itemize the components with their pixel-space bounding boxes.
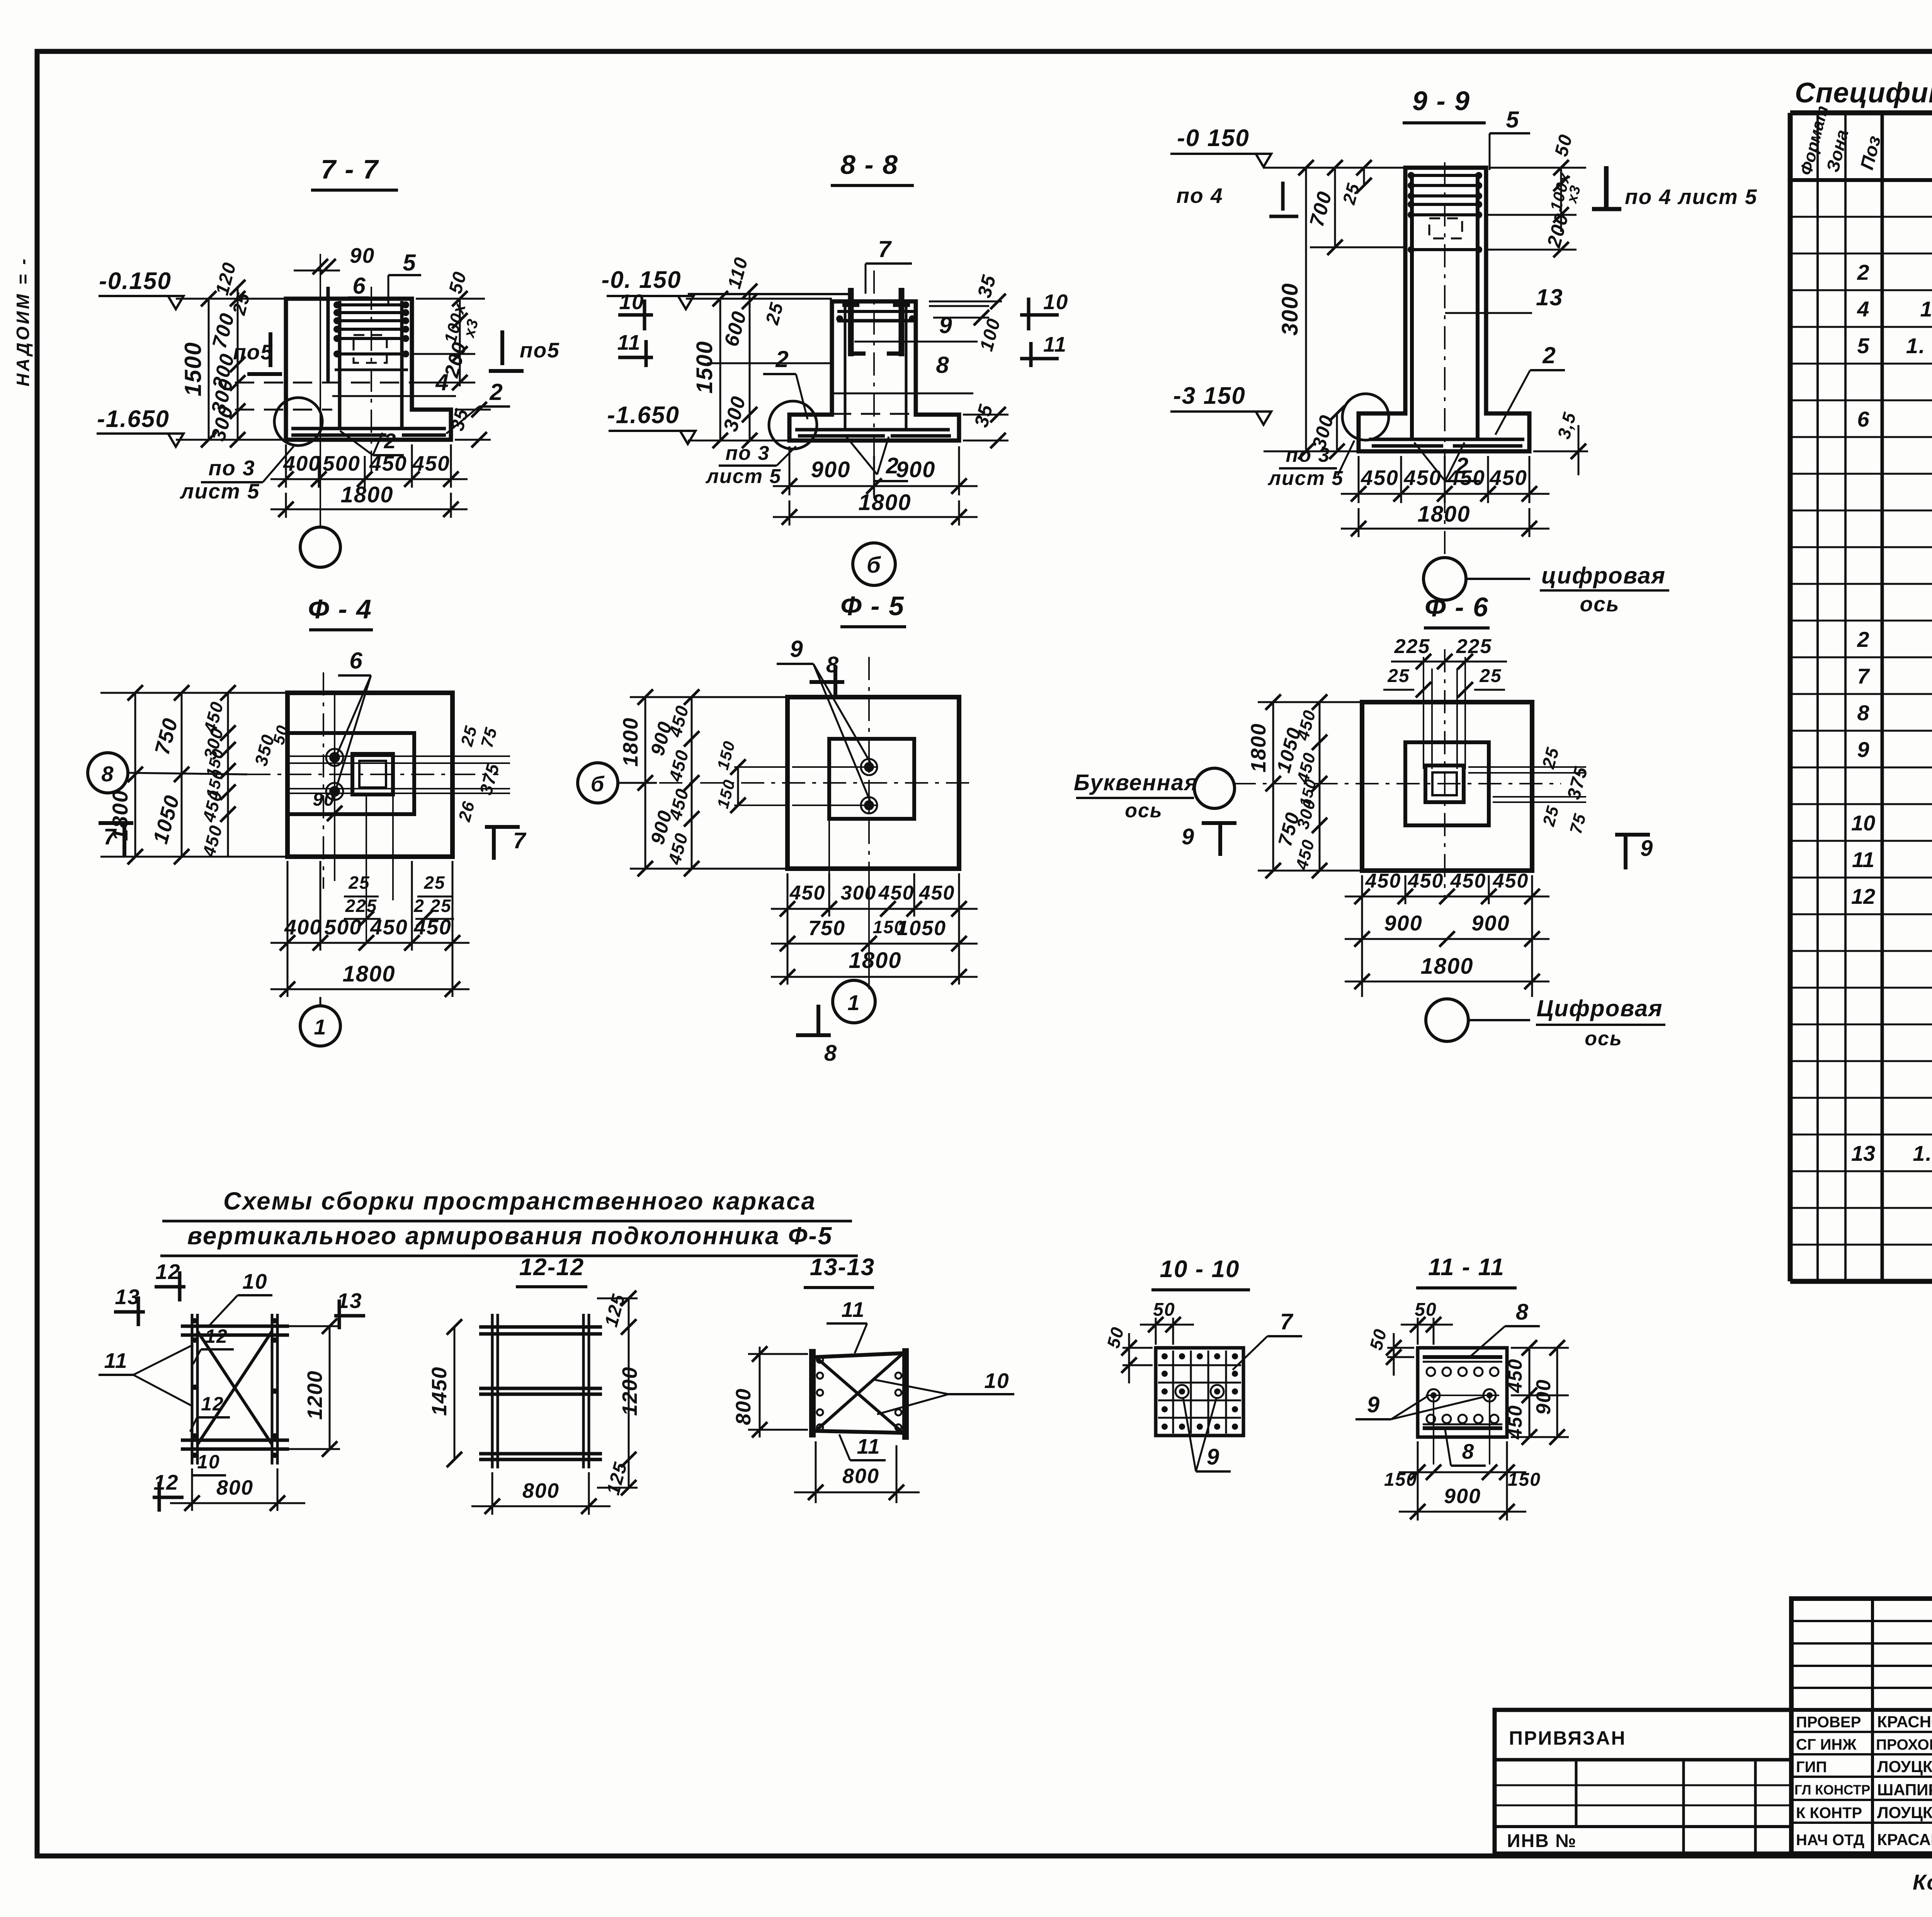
svg-text:9: 9 bbox=[939, 312, 952, 338]
7-7 left dim chain stack bbox=[237, 287, 239, 440]
svg-text:750: 750 bbox=[808, 917, 845, 940]
svg-text:5: 5 bbox=[1506, 107, 1519, 133]
svg-text:450: 450 bbox=[370, 915, 408, 939]
svg-text:25: 25 bbox=[423, 873, 445, 893]
svg-text:9: 9 bbox=[790, 636, 803, 662]
svg-text:8 - 8: 8 - 8 bbox=[840, 150, 898, 180]
svg-text:12-12: 12-12 bbox=[519, 1254, 585, 1281]
svg-text:12: 12 bbox=[205, 1325, 228, 1347]
8-8 dashed line bbox=[832, 413, 916, 415]
svg-text:13: 13 bbox=[1536, 284, 1563, 310]
svg-text:8: 8 bbox=[1516, 1300, 1529, 1325]
title block bbox=[1791, 1599, 1932, 1854]
svg-text:900: 900 bbox=[1384, 911, 1422, 935]
svg-text:1800: 1800 bbox=[1247, 723, 1270, 772]
F-4 column plates bbox=[352, 754, 393, 794]
9-9 bottom dim chain 450x4 bbox=[1358, 456, 1360, 503]
F-6 axis circle bbox=[1426, 999, 1468, 1041]
F-6 bottom dim chain bbox=[1361, 875, 1363, 997]
svg-text:лист 5: лист 5 bbox=[179, 479, 260, 503]
svg-text:10 - 10: 10 - 10 bbox=[1160, 1256, 1240, 1283]
scheme 13-13 left plate bbox=[809, 1349, 816, 1437]
svg-text:КРАСАВИН: КРАСАВИН bbox=[1877, 1830, 1932, 1849]
svg-text:Копировал Антипова: Копировал Антипова bbox=[1913, 1870, 1932, 1894]
svg-text:1800: 1800 bbox=[619, 717, 642, 767]
svg-text:225: 225 bbox=[1456, 635, 1492, 658]
svg-text:1200: 1200 bbox=[618, 1366, 641, 1416]
svg-text:-0.150: -0.150 bbox=[99, 268, 172, 294]
svg-text:450: 450 bbox=[878, 882, 915, 904]
svg-text:25: 25 bbox=[1387, 666, 1410, 686]
7-7 centerline bbox=[371, 287, 372, 479]
svg-text:Ф - 5: Ф - 5 bbox=[840, 591, 905, 621]
svg-text:1.412 - 1/77- В 3 100: 1.412 - 1/77- В 3 100 bbox=[1920, 297, 1932, 321]
svg-text:ГЛ КОНСТР: ГЛ КОНСТР bbox=[1794, 1783, 1870, 1798]
11-11 bottom dims 150 150 900 bbox=[1417, 1441, 1419, 1521]
svg-text:ось: ось bbox=[1585, 1027, 1622, 1050]
section 9-9 concrete outline bbox=[1359, 168, 1529, 451]
svg-text:6: 6 bbox=[1857, 407, 1869, 431]
F-5 anchor bolts bbox=[864, 762, 874, 772]
svg-text:б: б bbox=[867, 553, 881, 578]
F-4 bottom dim chain bbox=[287, 861, 289, 997]
F-5 axis circle 1 bbox=[833, 980, 875, 1023]
svg-text:по5: по5 bbox=[233, 340, 273, 364]
svg-text:8: 8 bbox=[101, 762, 114, 786]
svg-text:-1.650: -1.650 bbox=[97, 406, 170, 432]
svg-text:1800: 1800 bbox=[342, 961, 395, 987]
svg-text:450: 450 bbox=[789, 882, 826, 904]
7-7 dim 1800 bbox=[285, 493, 287, 518]
small attachment table bbox=[1495, 1710, 1791, 1854]
11-11 top bolt circles bbox=[1427, 1368, 1435, 1376]
7-7 axis circle bbox=[300, 527, 340, 567]
svg-text:7: 7 bbox=[1857, 664, 1870, 688]
F-6 bolt verticals from top bbox=[1423, 657, 1424, 769]
svg-text:ось: ось bbox=[1580, 592, 1620, 616]
svg-text:Буквенная: Буквенная bbox=[1074, 770, 1198, 795]
8-8 axis circle b bbox=[853, 543, 895, 585]
svg-text:10: 10 bbox=[197, 1451, 220, 1473]
9-9 vertical rebar poz13 bbox=[1410, 173, 1414, 441]
svg-text:7: 7 bbox=[1280, 1309, 1294, 1334]
9-9 dim 3000 bbox=[1305, 168, 1307, 451]
F-5 bottom dim chain bbox=[787, 873, 789, 985]
svg-text:КРАСНОВА: КРАСНОВА bbox=[1877, 1713, 1932, 1731]
svg-text:ПРОХОРОВА: ПРОХОРОВА bbox=[1876, 1737, 1932, 1753]
svg-text:11: 11 bbox=[1043, 332, 1067, 356]
8-8 detail circle bbox=[769, 401, 817, 449]
svg-text:450: 450 bbox=[919, 882, 955, 904]
svg-text:по 4: по 4 bbox=[1176, 184, 1223, 208]
svg-text:2: 2 bbox=[1857, 627, 1869, 651]
svg-text:500: 500 bbox=[324, 915, 362, 939]
svg-text:1: 1 bbox=[847, 990, 860, 1015]
svg-text:1500: 1500 bbox=[180, 342, 206, 396]
svg-text:1800: 1800 bbox=[340, 482, 393, 507]
svg-text:НАЧ ОТД: НАЧ ОТД bbox=[1796, 1832, 1864, 1849]
svg-text:11 - 11: 11 - 11 bbox=[1428, 1254, 1505, 1281]
8-8 anchor bolts poz7 bbox=[848, 288, 854, 356]
F-5 left dims bbox=[645, 697, 646, 869]
svg-text:450: 450 bbox=[1450, 870, 1486, 892]
svg-text:Ф - 6: Ф - 6 bbox=[1425, 592, 1489, 622]
7-7 stirrup ties poz5 bbox=[335, 303, 408, 306]
svg-text:7: 7 bbox=[513, 828, 527, 853]
11-11 right dims 450 450 900 bbox=[1511, 1347, 1569, 1349]
svg-text:25: 25 bbox=[348, 873, 370, 893]
svg-text:по 4 лист 5: по 4 лист 5 bbox=[1625, 185, 1758, 209]
svg-text:ЛОУЦКЕР: ЛОУЦКЕР bbox=[1877, 1803, 1932, 1822]
svg-text:50: 50 bbox=[1153, 1300, 1175, 1320]
svg-text:1050: 1050 bbox=[897, 917, 946, 940]
svg-text:450: 450 bbox=[1361, 466, 1399, 490]
svg-text:5: 5 bbox=[403, 250, 416, 276]
svg-text:2 25: 2 25 bbox=[413, 896, 452, 916]
svg-text:1800: 1800 bbox=[849, 948, 901, 973]
svg-text:ШАПИРО: ШАПИРО bbox=[1877, 1781, 1932, 1799]
svg-text:450: 450 bbox=[1504, 1358, 1526, 1393]
svg-text:1800: 1800 bbox=[1417, 502, 1470, 527]
svg-text:900: 900 bbox=[811, 457, 851, 482]
svg-text:СГ ИНЖ: СГ ИНЖ bbox=[1796, 1736, 1857, 1753]
svg-text:8: 8 bbox=[936, 352, 949, 378]
section 7-7 concrete outline bbox=[286, 299, 451, 440]
svg-text:по 3: по 3 bbox=[208, 456, 255, 480]
svg-text:450: 450 bbox=[1408, 870, 1444, 892]
F-4 right dims bbox=[456, 755, 510, 757]
7-7 anchor bolt poz6 bbox=[327, 287, 330, 383]
svg-text:11: 11 bbox=[617, 330, 641, 354]
svg-text:10: 10 bbox=[619, 290, 644, 314]
svg-text:800: 800 bbox=[522, 1479, 560, 1502]
10-10 grid bbox=[1172, 1351, 1174, 1434]
9-9 detail circle bbox=[1342, 394, 1389, 440]
F-5 thin lines bbox=[792, 766, 877, 768]
F-4 anchor bolts bbox=[329, 752, 340, 763]
7-7 left dim chain 1500 bbox=[208, 299, 210, 440]
10-10 rebar dots bbox=[1162, 1353, 1168, 1359]
scheme 13-13 label 10 leaders right bbox=[873, 1379, 949, 1394]
svg-text:лист 5: лист 5 bbox=[705, 465, 782, 488]
svg-text:Схемы сборки пространственно: Схемы сборки пространственного каркаса bbox=[223, 1187, 816, 1215]
svg-text:900: 900 bbox=[1532, 1379, 1555, 1415]
svg-text:ПРОВЕР: ПРОВЕР bbox=[1796, 1714, 1861, 1731]
svg-text:8: 8 bbox=[1462, 1439, 1475, 1463]
svg-text:450: 450 bbox=[1403, 466, 1442, 490]
scheme 13-13 dim 800 left bbox=[748, 1353, 808, 1355]
svg-text:4: 4 bbox=[1857, 297, 1869, 321]
svg-text:6: 6 bbox=[352, 273, 366, 299]
svg-text:лист 5: лист 5 bbox=[1267, 467, 1344, 490]
svg-text:1800: 1800 bbox=[1420, 954, 1473, 979]
7-7 column dashed outline bbox=[354, 335, 387, 363]
F-4 thin grid lines bbox=[287, 755, 502, 757]
svg-text:90: 90 bbox=[350, 243, 375, 267]
svg-text:1200: 1200 bbox=[303, 1370, 327, 1420]
svg-text:6: 6 bbox=[349, 648, 363, 674]
svg-text:10: 10 bbox=[242, 1269, 267, 1293]
scheme A X-braced frame bbox=[191, 1314, 194, 1465]
svg-text:900: 900 bbox=[1471, 911, 1510, 935]
section 8-8 concrete outline bbox=[789, 301, 959, 441]
svg-text:500: 500 bbox=[323, 451, 361, 475]
8-8 top step bbox=[688, 293, 851, 295]
svg-text:11: 11 bbox=[104, 1349, 128, 1373]
svg-text:Ф - 4: Ф - 4 bbox=[308, 594, 372, 624]
scheme 12-12 ladder frame bbox=[491, 1314, 494, 1468]
svg-text:ось: ось bbox=[1125, 799, 1163, 822]
9-9 dim 1800 bbox=[1358, 508, 1360, 537]
svg-text:10: 10 bbox=[1043, 290, 1068, 314]
scheme 13-13 top bar bbox=[816, 1353, 902, 1357]
svg-text:по 3: по 3 bbox=[726, 442, 770, 464]
svg-text:13: 13 bbox=[1851, 1141, 1875, 1165]
svg-text:ИНВ №: ИНВ № bbox=[1507, 1831, 1577, 1851]
svg-text:2: 2 bbox=[1542, 342, 1556, 368]
svg-text:-3 150: -3 150 bbox=[1173, 383, 1246, 409]
11-11 dims 50 top bbox=[1417, 1318, 1419, 1345]
svg-text:ПРИВЯЗАН: ПРИВЯЗАН bbox=[1509, 1727, 1626, 1749]
svg-text:-0 150: -0 150 bbox=[1177, 125, 1250, 151]
svg-text:по 3: по 3 bbox=[1286, 444, 1330, 466]
svg-text:10: 10 bbox=[1851, 811, 1875, 835]
svg-text:9: 9 bbox=[1640, 836, 1653, 861]
svg-text:11: 11 bbox=[857, 1434, 880, 1458]
svg-text:800: 800 bbox=[842, 1465, 879, 1488]
svg-text:12: 12 bbox=[1851, 884, 1875, 908]
svg-text:800: 800 bbox=[732, 1388, 755, 1425]
11-11 top plate poz8 bbox=[1423, 1355, 1502, 1359]
svg-text:900: 900 bbox=[896, 457, 936, 482]
svg-text:ЛОУЦКЕР: ЛОУЦКЕР bbox=[1877, 1757, 1932, 1776]
svg-text:150: 150 bbox=[1384, 1470, 1417, 1490]
svg-text:2: 2 bbox=[489, 379, 503, 405]
svg-text:7: 7 bbox=[878, 236, 892, 262]
svg-text:800: 800 bbox=[216, 1476, 253, 1499]
scheme 13-13 bottom bar bbox=[816, 1431, 902, 1433]
svg-text:13-13: 13-13 bbox=[810, 1254, 875, 1281]
svg-text:9: 9 bbox=[1857, 737, 1869, 762]
svg-text:900: 900 bbox=[1444, 1485, 1481, 1508]
svg-text:б: б bbox=[591, 772, 605, 796]
svg-text:1. 412 - 1/77 - В 3 - 020: 1. 412 - 1/77 - В 3 - 020 bbox=[1906, 333, 1932, 358]
11-11 square outline bbox=[1418, 1348, 1507, 1437]
9-9 centerline bbox=[1444, 162, 1446, 556]
svg-text:150: 150 bbox=[1508, 1470, 1541, 1490]
9-9 ties poz5 bbox=[1409, 174, 1481, 177]
F-6 axes bbox=[1444, 649, 1446, 896]
svg-text:13: 13 bbox=[115, 1285, 140, 1309]
svg-text:7 - 7: 7 - 7 bbox=[321, 154, 379, 184]
svg-text:9: 9 bbox=[1207, 1444, 1220, 1470]
svg-text:10: 10 bbox=[984, 1369, 1009, 1393]
svg-text:-0. 150: -0. 150 bbox=[601, 267, 681, 293]
svg-text:7: 7 bbox=[104, 824, 117, 849]
svg-text:50: 50 bbox=[1415, 1300, 1437, 1320]
10-10 dims 50 bbox=[1155, 1318, 1157, 1345]
svg-text:450: 450 bbox=[369, 451, 407, 475]
7-7 vertical rebar bbox=[338, 301, 342, 428]
F-6 right dims bbox=[1468, 766, 1586, 768]
8-8 bottom dims 900 900 bbox=[789, 446, 791, 495]
svg-text:450: 450 bbox=[1489, 466, 1527, 490]
F-6 column plates bbox=[1425, 765, 1464, 802]
7-7 detail circle bbox=[274, 398, 322, 446]
svg-text:400: 400 bbox=[283, 451, 321, 475]
svg-text:1. 412 -1/77- В 3 - 130: 1. 412 -1/77- В 3 - 130 bbox=[1913, 1141, 1932, 1165]
scheme 13-13 diagonals bbox=[816, 1357, 902, 1432]
10-10 circled bolts bbox=[1179, 1388, 1185, 1395]
svg-text:90: 90 bbox=[313, 789, 335, 810]
F-4 footing outline bbox=[287, 693, 452, 857]
svg-text:1800: 1800 bbox=[858, 490, 911, 515]
svg-text:400: 400 bbox=[284, 915, 322, 939]
svg-text:3000: 3000 bbox=[1277, 282, 1303, 335]
svg-text:9: 9 bbox=[1182, 824, 1195, 849]
7-7 dashed level line bbox=[235, 382, 416, 384]
svg-text:К КОНТР: К КОНТР bbox=[1796, 1805, 1862, 1822]
svg-text:ГИП: ГИП bbox=[1796, 1759, 1827, 1776]
svg-text:450: 450 bbox=[412, 451, 450, 475]
8-8 bottom mesh bbox=[795, 428, 950, 432]
scheme A dims bbox=[282, 1325, 340, 1327]
scheme 13-13 weld dots bbox=[817, 1357, 823, 1363]
9-9 dims 700 25 bbox=[1334, 168, 1336, 247]
8-8 dim 1800 bbox=[789, 500, 791, 526]
F-5 axes bbox=[868, 657, 870, 896]
F-4 left dim chains bbox=[134, 693, 136, 857]
F-6 left dims bbox=[1272, 702, 1274, 871]
svg-text:450: 450 bbox=[1504, 1405, 1526, 1439]
svg-text:450: 450 bbox=[1365, 870, 1401, 892]
F-5 axis circle b bbox=[578, 763, 618, 803]
9-9 dim 300 bbox=[1336, 413, 1338, 451]
F-4 axes bbox=[323, 672, 324, 889]
svg-text:Цифровая: Цифровая bbox=[1537, 995, 1663, 1021]
8-8 tie bbox=[837, 310, 915, 313]
svg-text:450: 450 bbox=[1447, 466, 1485, 490]
svg-text:1500: 1500 bbox=[692, 340, 717, 393]
svg-text:11: 11 bbox=[841, 1298, 865, 1322]
F-4 dim 1800 bottom bbox=[270, 988, 469, 990]
svg-text:450: 450 bbox=[413, 915, 452, 939]
8-8 centerline bbox=[873, 270, 875, 514]
svg-text:вертикального армирования по: вертикального армирования подколонника Ф… bbox=[187, 1222, 833, 1250]
9-9 axis circle bbox=[1423, 558, 1466, 600]
svg-text:Спецификация элементов монол: Спецификация элементов монолитных фундам… bbox=[1795, 77, 1932, 109]
svg-text:5: 5 bbox=[1857, 333, 1869, 358]
7-7 bottom mesh poz2 bbox=[291, 427, 446, 430]
scheme 13-13 right plate bbox=[902, 1348, 909, 1440]
8-8 inner rebar verticals bbox=[844, 304, 847, 428]
F-6 pedestal outline bbox=[1405, 742, 1489, 825]
svg-text:11: 11 bbox=[1852, 847, 1874, 872]
svg-text:225: 225 bbox=[1394, 635, 1430, 658]
svg-text:2: 2 bbox=[384, 429, 397, 453]
scheme A diagonals bbox=[197, 1331, 272, 1444]
7-7 bottom dim chain bbox=[285, 444, 287, 488]
svg-text:2: 2 bbox=[1857, 260, 1869, 284]
scheme 13-13 dim 800 bottom bbox=[815, 1441, 817, 1503]
9-9 bottom mesh poz2 bbox=[1369, 438, 1524, 441]
svg-text:-1.650: -1.650 bbox=[607, 402, 680, 429]
svg-text:цифровая: цифровая bbox=[1541, 563, 1666, 589]
11-11 middle circled bolts 9 bbox=[1426, 1395, 1499, 1396]
10-10 square outline bbox=[1156, 1348, 1243, 1436]
svg-text:8: 8 bbox=[1857, 701, 1869, 725]
F-6 footing outline bbox=[1362, 702, 1532, 871]
svg-text:12: 12 bbox=[155, 1260, 180, 1284]
svg-text:8: 8 bbox=[824, 1041, 837, 1066]
svg-text:9 - 9: 9 - 9 bbox=[1412, 86, 1470, 116]
svg-text:25: 25 bbox=[1479, 666, 1502, 686]
svg-text:12: 12 bbox=[201, 1393, 224, 1415]
F-5 pedestal outline bbox=[829, 739, 914, 819]
scheme 12-12 dims bbox=[454, 1327, 456, 1459]
svg-text:1: 1 bbox=[314, 1015, 327, 1039]
svg-text:1450: 1450 bbox=[428, 1366, 451, 1416]
spec table grid bbox=[1790, 113, 1932, 1281]
svg-text:12: 12 bbox=[153, 1470, 179, 1494]
svg-text:300: 300 bbox=[841, 882, 877, 904]
8-8 left dims bbox=[719, 299, 721, 441]
svg-text:по5: по5 bbox=[520, 338, 560, 362]
F-5 footing outline bbox=[787, 697, 959, 869]
svg-text:450: 450 bbox=[1493, 870, 1529, 892]
svg-text:9: 9 bbox=[1367, 1392, 1380, 1417]
F-4 axis circle V bbox=[88, 753, 128, 793]
svg-text:НАДОИМ = -: НАДОИМ = - bbox=[13, 257, 33, 386]
F-4 pedestal outline bbox=[287, 733, 414, 814]
F-4 axis circle 1 bbox=[300, 1006, 340, 1046]
svg-text:2: 2 bbox=[775, 346, 789, 372]
11-11 bottom bolt circles + plate bbox=[1427, 1415, 1435, 1423]
9-9 column dashed outline bbox=[1429, 218, 1462, 238]
